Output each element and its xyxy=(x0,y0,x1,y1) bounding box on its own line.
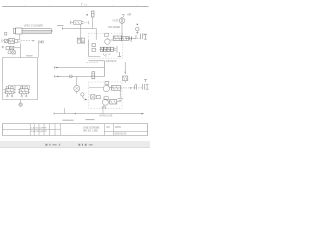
svg-text:DRAIN LINE: DRAIN LINE xyxy=(100,114,113,117)
manifold row 1 xyxy=(100,47,103,51)
cylinder port line xyxy=(19,34,21,39)
FRL unit right xyxy=(81,38,84,43)
pilot fitting xyxy=(41,41,43,43)
feed2 arrow xyxy=(57,76,60,77)
pump3 circle xyxy=(102,99,108,105)
inlet fitting xyxy=(122,15,125,17)
svg-text:0000-00-00: 0000-00-00 xyxy=(115,133,127,135)
part note above xyxy=(86,119,95,121)
svg-text:DATE: DATE xyxy=(115,126,121,129)
strainer 2 xyxy=(91,95,95,99)
check valve box xyxy=(4,39,7,43)
lubricator xyxy=(122,76,127,81)
toolbar icons left xyxy=(46,144,61,146)
feed1 arrow xyxy=(56,67,59,68)
pilot arrow xyxy=(32,40,35,41)
pump2 circle xyxy=(103,86,109,92)
piston rod tip xyxy=(51,30,53,32)
cylinder gland xyxy=(15,28,22,34)
suction 2 xyxy=(89,86,103,88)
gauge stem xyxy=(92,17,94,28)
drain stub xyxy=(64,108,66,113)
FRL unit left xyxy=(77,38,80,43)
unit2 mid block xyxy=(104,97,108,100)
title block outline xyxy=(3,124,148,136)
drain to muffler xyxy=(20,100,22,103)
inline check 1 xyxy=(130,36,132,41)
svg-text:AIR PACK: AIR PACK xyxy=(106,60,117,63)
row2 block b xyxy=(10,46,14,49)
feed line lower xyxy=(54,76,104,78)
pump2 outlet xyxy=(109,86,111,88)
pilot drop right xyxy=(124,62,126,74)
air dryer circle xyxy=(119,18,125,24)
tank symbol xyxy=(118,99,123,102)
receiver dot xyxy=(137,24,139,25)
unloader valve 2 xyxy=(111,86,120,91)
aux pair b xyxy=(92,48,95,51)
discharge arrow 2 xyxy=(130,87,133,88)
aux trap circle xyxy=(81,93,84,96)
pump3 drain stub xyxy=(102,107,104,113)
vent T xyxy=(118,52,122,57)
pump unit 2 enclosure xyxy=(89,82,122,108)
tank drop xyxy=(119,90,121,98)
svg-text:AIR SO. LINE: AIR SO. LINE xyxy=(83,130,98,133)
manifold row2 xyxy=(2,46,5,48)
pilot dashed line xyxy=(21,40,32,42)
pilot drop wire xyxy=(38,43,40,57)
manifold tails xyxy=(114,46,117,53)
aux block 2 xyxy=(97,95,101,98)
top right marks xyxy=(144,79,147,82)
receiver circle xyxy=(136,27,140,31)
valve A caps xyxy=(6,87,8,89)
valve B ports xyxy=(22,94,27,96)
machine room box xyxy=(3,58,38,100)
revision columns xyxy=(30,124,113,136)
svg-text:AIR DRIER: AIR DRIER xyxy=(108,26,120,29)
feed2 end tick xyxy=(53,75,55,77)
sheet top border xyxy=(2,6,149,8)
row3 gauge xyxy=(8,51,11,54)
note dots xyxy=(86,61,98,63)
aux gauge circle xyxy=(74,86,80,92)
row2 block a xyxy=(6,46,9,49)
motor2 marks xyxy=(105,81,109,84)
relief marks xyxy=(103,53,111,56)
dash to tick xyxy=(84,22,88,24)
left fitting marks xyxy=(2,39,4,42)
aux stem xyxy=(76,92,78,94)
aux arrow xyxy=(85,99,88,101)
branch riser to unit1 xyxy=(95,28,97,40)
viewer toolbar strip xyxy=(0,141,150,148)
title mid rule right xyxy=(104,130,148,132)
main drain line xyxy=(54,113,142,115)
inline check 2 xyxy=(135,84,137,89)
cylinder clevis xyxy=(5,32,7,35)
cylinder head cap xyxy=(13,29,15,34)
solenoid valve B xyxy=(20,89,29,94)
svg-text:NO: NO xyxy=(106,127,110,129)
unit2 drain marks xyxy=(101,105,106,109)
svg-text:AIR: AIR xyxy=(127,14,131,17)
room label xyxy=(26,55,33,57)
inline filter column xyxy=(92,72,95,79)
stubs xyxy=(8,85,29,89)
valve pilot block xyxy=(15,39,21,42)
pump3 tail xyxy=(117,101,119,103)
sheet note above xyxy=(63,119,74,121)
supply riser xyxy=(104,61,106,77)
svg-text:1 A0 X01 APPR: 1 A0 X01 APPR xyxy=(31,126,47,129)
title mid rule left xyxy=(2,129,60,131)
drain arrowhead xyxy=(141,113,144,115)
tick 1 xyxy=(135,35,137,40)
cylinder barrel xyxy=(22,29,51,34)
pump1 outlet xyxy=(110,39,113,41)
row3 filter xyxy=(12,51,15,54)
svg-text:LPKO CYLINDER: LPKO CYLINDER xyxy=(24,25,43,28)
terminal block 1 xyxy=(141,33,147,39)
feed line upper xyxy=(54,67,104,69)
valve B caps xyxy=(21,87,23,89)
aux hook xyxy=(82,96,85,99)
drain left tick xyxy=(53,113,55,115)
discharge arrow 1 xyxy=(126,38,129,39)
discharge dashes 2 xyxy=(121,87,143,89)
ref dash xyxy=(57,24,64,26)
top revision glyphs xyxy=(81,3,87,6)
feed1 end tick xyxy=(53,66,55,68)
header valve unit xyxy=(70,21,72,25)
motor1 marks xyxy=(105,33,109,36)
solenoid valve A xyxy=(5,89,14,94)
svg-text:FLTR: FLTR xyxy=(113,20,119,23)
air header line xyxy=(62,27,96,30)
muffler xyxy=(19,103,23,107)
unloader valve 1 xyxy=(113,36,122,40)
main drop wire xyxy=(19,43,21,57)
suction pipe 1 xyxy=(89,40,101,56)
toolbar icons right xyxy=(79,144,93,146)
pilot gauge xyxy=(38,41,40,43)
terminal block 2 xyxy=(143,84,149,90)
pump3 valve xyxy=(110,100,117,104)
discharge dashes 1 xyxy=(122,37,140,39)
pump unit 1 enclosure xyxy=(89,33,123,58)
aux pair a xyxy=(92,43,95,46)
valve A ports xyxy=(7,94,12,96)
supply header in box xyxy=(8,84,29,86)
speed control valve xyxy=(8,39,14,44)
inline gauge 2 xyxy=(69,75,72,78)
row2 wire xyxy=(14,47,21,49)
dryer drop xyxy=(121,17,123,36)
gauge dot xyxy=(86,14,87,15)
gauge block xyxy=(92,11,95,17)
pilot arrow down xyxy=(125,72,126,75)
right bits xyxy=(144,33,147,36)
drop to FRL xyxy=(80,24,82,38)
supply out line xyxy=(89,60,105,62)
aux gauge drop xyxy=(76,76,78,85)
svg-text:0 A0 X00 APPR: 0 A0 X00 APPR xyxy=(31,130,47,133)
junction dot xyxy=(75,113,76,114)
compressor block xyxy=(121,36,128,40)
border zone ticks xyxy=(25,6,137,7)
pump1 circle xyxy=(105,39,110,44)
